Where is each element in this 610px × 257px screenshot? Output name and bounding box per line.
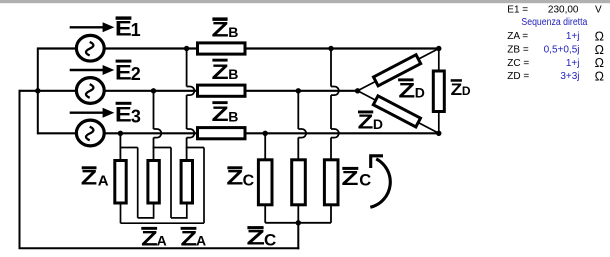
node dot ZC star point	[296, 220, 301, 225]
wire neutral tie vertical x=37.8	[37, 48, 39, 135]
svg-text:ZB =: ZB =	[507, 45, 529, 56]
top grey bar	[0, 0, 610, 3]
label ZA left	[81, 166, 109, 189]
svg-text:E: E	[115, 60, 132, 84]
svg-text:V: V	[595, 5, 602, 16]
arrow E2	[70, 65, 115, 75]
wire phase 2 (E2 line, y=90.8)	[20, 90, 358, 92]
node dot phase3/ZA1	[118, 131, 123, 136]
resistor ZC2	[292, 160, 306, 205]
wire ZC feed 1 (phase3 to ZC1)	[264, 133, 266, 161]
parameter table	[507, 5, 604, 84]
wire ZA delta return links	[120, 148, 205, 224]
node dot neutral/phase2	[35, 88, 40, 93]
wire phase 3 (E3 line, y=133.3)	[37, 132, 439, 134]
svg-text:Z: Z	[212, 103, 229, 126]
svg-text:Ω: Ω	[595, 30, 604, 44]
resistor ZB2	[198, 85, 246, 96]
svg-text:D: D	[415, 85, 425, 101]
wire hop ZC feed3 over phase3	[331, 129, 339, 138]
wire L-link ZA3 top	[186, 147, 204, 149]
wire U-link ZA2 bottom	[138, 217, 154, 219]
svg-text:1+j: 1+j	[566, 58, 580, 69]
wire ZA3 bottom stub	[186, 204, 188, 219]
svg-text:Z: Z	[81, 167, 98, 190]
wire ZC star bus	[265, 222, 331, 224]
node dot phase2/ZA2	[151, 88, 156, 93]
svg-text:A: A	[157, 233, 167, 249]
arrow E3	[70, 108, 115, 118]
wire U-link ZA1 bottom (outer)	[121, 222, 205, 224]
label ZC bottom	[247, 226, 277, 250]
svg-text:Ω: Ω	[595, 43, 604, 57]
wire hop ZC feed2 over phase3	[298, 129, 306, 138]
wire ZC feed 2 (phase2 to ZC2)	[298, 91, 306, 161]
wire L-link ZA2 top	[153, 147, 171, 149]
svg-text:Ω: Ω	[595, 70, 604, 84]
wire phase 1 (E1 line, y=48.5)	[37, 47, 439, 49]
svg-text:Z: Z	[181, 227, 198, 250]
svg-text:3+3j: 3+3j	[560, 71, 579, 82]
label ZD top	[398, 78, 425, 102]
source E2	[76, 78, 104, 104]
svg-text:1: 1	[131, 20, 141, 40]
svg-text:A: A	[98, 173, 109, 190]
label ZC left	[226, 166, 254, 189]
wire ZA feed 2 (phase2 to ZA2)	[154, 91, 162, 160]
wire ZA feed 1 (phase3 to ZA1)	[119, 133, 121, 160]
svg-text:Z: Z	[398, 80, 415, 103]
wire hop feed2 over phase3	[154, 129, 162, 138]
svg-text:1+j: 1+j	[566, 31, 580, 42]
label ZB1	[212, 17, 239, 41]
label ZD right	[451, 79, 471, 99]
resistor ZD top slanted	[374, 55, 421, 86]
svg-text:E: E	[115, 17, 132, 41]
svg-text:ZC =: ZC =	[507, 58, 529, 69]
arrow E1	[70, 22, 115, 32]
svg-text:Z: Z	[226, 167, 243, 190]
resistor ZB3	[198, 128, 246, 139]
wire delta edge left-top	[358, 49, 439, 91]
source E1	[76, 35, 104, 61]
label E2	[115, 60, 141, 85]
svg-text:B: B	[228, 108, 238, 124]
svg-text:D: D	[462, 84, 471, 98]
label E1	[115, 16, 141, 40]
wire delta edge right vertical	[438, 49, 440, 134]
svg-text:Z: Z	[451, 80, 463, 99]
wire U-link ZA3 bottom	[171, 217, 187, 219]
svg-text:Sequenza diretta: Sequenza diretta	[521, 17, 587, 28]
resistor ZC3	[324, 160, 338, 205]
svg-text:Z: Z	[358, 112, 374, 134]
svg-text:E: E	[115, 103, 132, 127]
rotation arrow near ZC	[370, 156, 390, 208]
svg-text:Z: Z	[212, 61, 229, 84]
node dot phase3/ZC1	[263, 131, 268, 136]
resistor ZA2	[148, 161, 159, 204]
node dot delta bottom apex	[436, 131, 441, 136]
wire ZC2 bottom stub	[297, 205, 299, 223]
svg-text:ZA =: ZA =	[507, 31, 528, 42]
resistor ZC1	[258, 160, 272, 205]
resistor ZA3	[181, 161, 192, 204]
svg-text:Ω: Ω	[595, 56, 604, 70]
svg-text:2: 2	[131, 64, 141, 84]
label ZD bottom-left	[358, 111, 383, 134]
node dot phase2/ZC2	[296, 88, 301, 93]
svg-text:C: C	[264, 231, 276, 250]
label ZC right	[342, 167, 372, 190]
svg-text:3: 3	[131, 107, 141, 127]
wire ZC1 bottom stub	[264, 205, 266, 223]
resistor ZA1	[115, 161, 126, 204]
wire hop feed3 over phase3	[187, 129, 195, 138]
wire ZA2 bottom stub	[153, 204, 155, 219]
wire return vertical A	[137, 148, 139, 218]
node dot delta top apex	[436, 46, 441, 51]
label E3	[115, 102, 141, 127]
svg-text:E1 =: E1 =	[507, 5, 528, 16]
svg-text:C: C	[243, 173, 255, 190]
node dot delta left apex	[355, 88, 360, 93]
svg-text:A: A	[196, 233, 206, 249]
node dot phase1/ZC3	[328, 46, 333, 51]
wire ZC star point riser	[297, 223, 299, 250]
wire ZC3 bottom stub	[330, 205, 332, 223]
svg-text:D: D	[373, 116, 383, 132]
svg-text:Z: Z	[212, 18, 229, 41]
label ZB3	[212, 101, 239, 126]
svg-text:Z: Z	[247, 227, 266, 250]
wire neutral down-left vertical x=19.5	[19, 90, 21, 249]
svg-text:B: B	[228, 66, 238, 82]
resistor ZD bottom slanted	[373, 96, 420, 127]
svg-text:B: B	[228, 24, 238, 40]
label ZA bottom 1	[141, 227, 167, 250]
wire hop feed3 over phase2	[187, 87, 195, 96]
wire return vertical C	[203, 148, 205, 224]
resistor ZD right vertical	[433, 71, 444, 112]
wire delta edge left-bottom	[358, 91, 439, 134]
svg-text:0,5+0,5j: 0,5+0,5j	[544, 45, 580, 56]
resistor ZB1	[198, 43, 246, 54]
wire bottom neutral bus	[19, 247, 300, 249]
wire ZA1 bottom stub	[120, 204, 122, 223]
svg-text:Z: Z	[141, 227, 158, 250]
wire return vertical B	[170, 148, 172, 218]
wire hop ZC feed3 over phase2	[331, 87, 339, 96]
label ZA bottom 2	[181, 227, 207, 250]
wire L-link ZA1 top	[120, 147, 138, 149]
svg-text:Z: Z	[342, 168, 359, 190]
source E3	[76, 120, 104, 146]
wire ZA feed 3 (phase1 to ZA3)	[187, 49, 195, 161]
svg-text:230,00: 230,00	[548, 5, 579, 16]
svg-text:ZD =: ZD =	[507, 71, 529, 82]
wire ZC feed 3 (phase1 to ZC3)	[331, 49, 339, 162]
wire ZC bottom stubs and star bus	[265, 205, 331, 223]
label ZB2	[212, 59, 239, 84]
svg-text:C: C	[359, 172, 371, 190]
node dot phase1/ZA3	[184, 46, 189, 51]
